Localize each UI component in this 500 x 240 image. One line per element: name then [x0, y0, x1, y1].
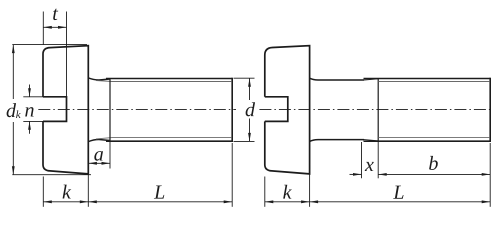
- left screw thread runout minor slant bottom: [96, 138, 112, 139]
- dimension d bottom extension line: [234, 140, 255, 142]
- dimension a extension line right: [109, 141, 111, 168]
- right head face extension to dimension line: [309, 174, 311, 207]
- right screw slot notch: [265, 97, 288, 122]
- dimension n top extension line: [23, 96, 43, 98]
- right screw thread minor diameter bottom line: [378, 137, 489, 139]
- left k extension line left: [42, 177, 44, 207]
- left screw slot notch: [43, 97, 67, 122]
- right screw thread major top edge: [364, 78, 491, 80]
- dimension b line with arrows: [378, 173, 490, 176]
- left L extension line right: [231, 143, 233, 207]
- centerline left screw axis: [38, 109, 236, 111]
- left screw thread minor diameter top line: [112, 81, 231, 83]
- dimension t extension line right: [66, 12, 68, 97]
- dimension t line with arrows: [43, 26, 66, 29]
- dimension a line with arrows: [88, 162, 110, 165]
- dimension dk line with arrows: [12, 45, 15, 175]
- dimension L right line with arrows: [310, 200, 491, 203]
- left screw shank end line: [231, 78, 233, 142]
- svg-text:L: L: [392, 182, 404, 204]
- right screw thread minor diameter top line: [378, 81, 489, 83]
- left screw thread runout top edge: [88, 78, 110, 80]
- right L extension line right: [489, 143, 491, 207]
- dimension n bottom extension line: [23, 120, 43, 122]
- left screw thread runout bottom edge: [88, 139, 110, 141]
- dimension x extension line left: [361, 142, 363, 178]
- dimension k left line with arrows: [43, 200, 88, 203]
- dimension dk top extension line: [12, 44, 87, 46]
- right screw shank end line: [489, 78, 491, 142]
- left screw thread minor diameter bottom line: [112, 137, 231, 139]
- svg-text:n: n: [24, 100, 34, 122]
- right screw unthreaded shank top edge with fillet: [310, 78, 364, 80]
- dimension L left line with arrows: [88, 200, 232, 203]
- svg-text:a: a: [94, 144, 104, 166]
- left screw full-thread start line: [109, 79, 111, 142]
- left screw thread runout minor slant top: [96, 80, 112, 83]
- right screw thread runout slant top: [364, 79, 378, 80]
- left screw head outline: [43, 46, 88, 174]
- svg-text:k: k: [283, 182, 293, 204]
- centerline right screw axis: [259, 109, 492, 111]
- svg-text:x: x: [364, 154, 374, 176]
- dimension n top arrow: [28, 85, 31, 97]
- left screw shank bottom edge (full thread major): [106, 140, 232, 142]
- left screw shank top edge (full thread major): [106, 78, 232, 80]
- svg-text:d: d: [245, 99, 256, 121]
- svg-text:k: k: [62, 182, 72, 204]
- dimension x arrows outside pointing in: [350, 173, 362, 176]
- dimension d line with arrows: [248, 78, 251, 141]
- dimension d top extension line: [234, 77, 255, 79]
- svg-text:L: L: [153, 182, 165, 204]
- dimension k right line with arrows: [265, 200, 310, 203]
- dimension x extension line right / b left: [377, 141, 379, 178]
- dimension n bottom arrow: [28, 122, 31, 134]
- dimension dk bottom extension line: [12, 174, 91, 176]
- right screw unthreaded shank bottom edge with fillet: [310, 140, 364, 142]
- right screw thread runout slant bottom: [364, 140, 378, 141]
- right k extension line left: [264, 177, 266, 207]
- right screw head outline: [265, 46, 310, 174]
- right screw full-thread start line: [377, 79, 379, 142]
- svg-text:t: t: [52, 3, 58, 25]
- svg-text:b: b: [428, 153, 438, 175]
- left head face extension to dimension line: [87, 174, 89, 207]
- dimension t extension line left: [42, 12, 44, 45]
- right screw thread major bottom edge: [364, 140, 491, 142]
